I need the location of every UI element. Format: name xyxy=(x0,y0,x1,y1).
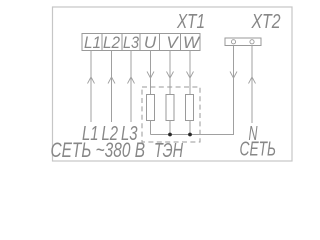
frame border xyxy=(53,7,293,161)
wire L2 xyxy=(111,51,113,123)
wire V xyxy=(169,51,171,95)
svg-text:СЕТЬ ~380 В: СЕТЬ ~380 В xyxy=(51,139,146,162)
wire from EK1 to bus xyxy=(150,121,152,135)
arrow down on XT2 left wire xyxy=(230,72,237,79)
XT2 terminal 1 xyxy=(231,40,235,44)
heater element EK3 xyxy=(186,95,194,121)
svg-text:L2: L2 xyxy=(103,33,120,52)
wire L1 xyxy=(90,51,92,123)
wire from EK2 to bus xyxy=(169,121,171,135)
junction dot at EK3 xyxy=(188,133,192,137)
svg-text:U: U xyxy=(144,33,157,52)
arrow up on L3 wire xyxy=(128,77,135,84)
wire from EK3 to bus xyxy=(189,121,191,135)
svg-text:СЕТЬ: СЕТЬ xyxy=(240,139,277,161)
arrow down on V wire xyxy=(167,72,174,79)
svg-text:XT1: XT1 xyxy=(176,11,205,33)
wire L3 xyxy=(130,51,132,123)
svg-text:ТЭН: ТЭН xyxy=(154,140,183,162)
wire N xyxy=(251,46,253,124)
junction dot at EK2 xyxy=(168,133,172,137)
arrow up on N wire xyxy=(249,77,256,84)
svg-text:L3: L3 xyxy=(123,33,139,52)
svg-text:W: W xyxy=(183,33,201,52)
svg-text:XT2: XT2 xyxy=(251,11,281,33)
arrow down on U wire xyxy=(147,72,154,79)
XT2 terminal 2 xyxy=(250,40,254,44)
heater element EK2 xyxy=(166,95,174,121)
svg-text:L1: L1 xyxy=(84,33,101,52)
neutral bus wire xyxy=(151,46,234,135)
wire W xyxy=(189,51,191,95)
heater element EK1 xyxy=(147,95,155,121)
terminal block XT2 xyxy=(225,38,261,46)
arrow up on L2 wire xyxy=(108,77,115,84)
arrow down on W wire xyxy=(187,72,194,79)
wire U xyxy=(150,51,152,95)
terminal block XT1 xyxy=(82,34,200,51)
dashed enclosure (heater assembly) xyxy=(142,87,200,142)
arrow up on L1 wire xyxy=(88,77,95,84)
svg-text:V: V xyxy=(166,33,179,52)
